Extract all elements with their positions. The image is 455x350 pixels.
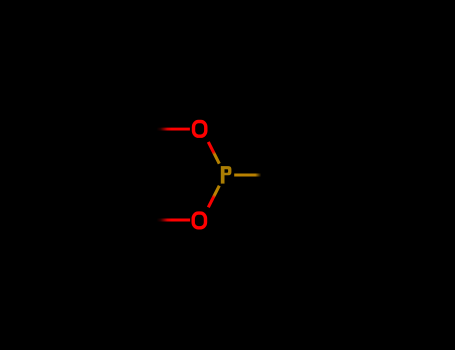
atom P : drawn glyph — [221, 166, 232, 184]
wire P-C bond right (to phenyl ipso, fades to black) — [234, 174, 274, 177]
wire C-O bond top (ethoxy) — [157, 128, 190, 131]
atom O1 : drawn glyph — [194, 122, 206, 137]
wire O1-P bond — [208, 142, 219, 164]
atom O2 : drawn glyph — [193, 213, 205, 228]
wire C-O bond bottom (ethoxy) — [157, 219, 191, 222]
wire P-O2 bond — [208, 186, 219, 208]
